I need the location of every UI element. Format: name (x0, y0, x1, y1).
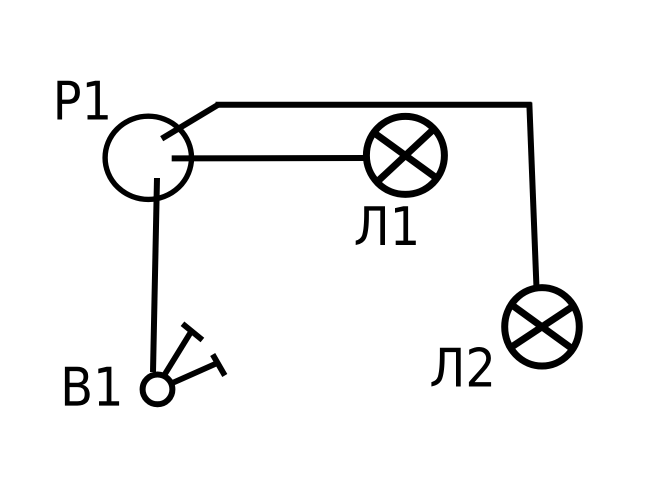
switch V1 upper contact crossbar (183, 324, 203, 340)
switch V1 lever arm upper (165, 331, 192, 374)
label V1 (65, 367, 119, 406)
switch V1 lever arm lower (174, 363, 219, 383)
lamp L2 circle (505, 288, 580, 366)
lamp L2 cross stroke 1 (510, 303, 575, 350)
wire top horizontal (216, 102, 532, 108)
wire relay to lamp L1 (middle horizontal) (172, 155, 366, 161)
lamp L2 cross stroke 2 (509, 305, 576, 349)
lamp L1 cross stroke 2 (376, 128, 435, 183)
lamp L1 circle (366, 116, 444, 194)
wire relay down to switch V1 (153, 178, 157, 372)
label L2 (431, 347, 491, 387)
switch V1 pivot circle (143, 375, 173, 405)
wire from relay to top-left corner (diagonal) (162, 105, 218, 139)
lamp L1 cross stroke 1 (373, 132, 438, 179)
label P1 (57, 81, 107, 120)
relay P1 coil circle (105, 116, 191, 199)
label L1 (356, 206, 416, 245)
switch V1 lower contact crossbar (213, 355, 225, 376)
wire right vertical down to lamp L2 (529, 103, 536, 289)
